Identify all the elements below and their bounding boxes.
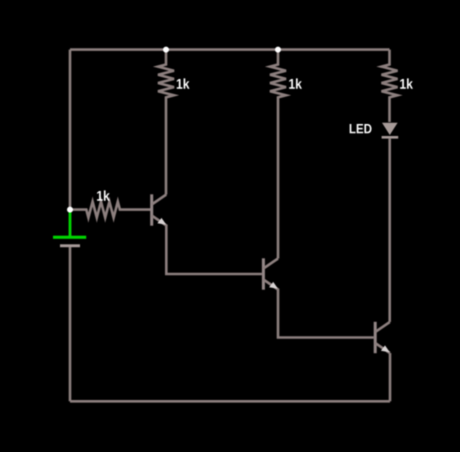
wire left rail <box>69 50 72 210</box>
resistor R3 <box>382 50 398 122</box>
node junction top-middle <box>275 47 281 53</box>
transistor Q1 <box>152 194 167 225</box>
resistor R4 <box>70 202 152 218</box>
wire Q2 emitter to Q3 base <box>278 289 374 338</box>
wire bottom rail <box>70 400 390 403</box>
wire right bottom riser <box>389 353 392 401</box>
label LED <box>350 124 372 133</box>
battery V1 <box>53 210 86 402</box>
resistor R2 <box>270 50 286 259</box>
transistor Q3 <box>375 322 390 353</box>
resistor R1 <box>158 50 174 195</box>
transistor Q2 <box>263 258 278 289</box>
LED D1 <box>382 123 399 322</box>
wire top rail <box>70 48 390 51</box>
node junction top-left <box>163 47 169 53</box>
label R2 value 1k <box>289 78 302 88</box>
node junction battery positive <box>67 207 73 213</box>
label R3 value 1k <box>400 78 413 88</box>
label R4 value 1k <box>97 190 110 200</box>
wire Q1 emitter to Q2 base <box>166 225 262 275</box>
label R1 value 1k <box>177 78 190 88</box>
